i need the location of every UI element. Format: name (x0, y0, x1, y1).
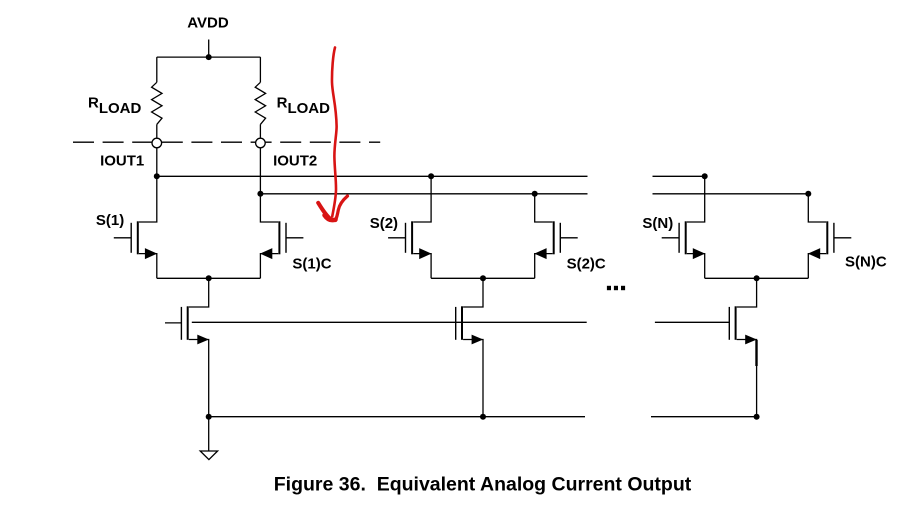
wire ground rail left segment (209, 416, 585, 418)
ground symbol (200, 451, 217, 460)
wire ground stub (208, 417, 210, 451)
label RLOAD right (277, 95, 331, 117)
annotation red arrowhead left wing (318, 203, 331, 220)
ellipsis continuation dots (607, 286, 625, 290)
label S(1)C (292, 255, 331, 272)
node label IOUT2 (273, 152, 317, 169)
junction AVDD node (206, 54, 212, 60)
junction tail node pair N (754, 275, 760, 281)
terminal circle IOUT2 (256, 138, 266, 148)
terminal circle IOUT1 (152, 138, 162, 148)
label S(1) (96, 212, 124, 229)
node label IOUT1 (100, 152, 144, 169)
wire tail rail pair N (705, 277, 809, 279)
junction tail node pair 1 (206, 275, 212, 281)
label RLOAD left (88, 95, 142, 117)
transistor Q2 switch S(1)C (260, 194, 303, 278)
transistor Q5 switch S(N) (662, 176, 705, 278)
dashed boundary line (73, 141, 380, 143)
wire AVDD stub (208, 40, 210, 58)
transistor Q4 switch S(2)C (534, 194, 577, 278)
wire right resistor bottom lead (259, 124, 261, 137)
wire bus IOUT2 rail right segment (653, 193, 809, 195)
wire IOUT1 drop (156, 148, 158, 177)
power net label AVDD (187, 14, 229, 31)
wire bias line left segment (192, 321, 587, 323)
junction tail node pair 2 (480, 275, 486, 281)
wire tail rail pair 1 (157, 277, 261, 279)
resistor RLOAD right (255, 82, 265, 124)
transistor Q9 current source N (729, 278, 757, 416)
wire right resistor top lead (259, 57, 261, 82)
wire bus IOUT2 rail left segment (260, 193, 587, 195)
wire tail rail pair 2 (431, 277, 535, 279)
wire left resistor top lead (156, 57, 158, 82)
wire top rail (157, 56, 261, 58)
transistor Q6 switch S(N)C (808, 194, 851, 278)
annotation red arrowhead right hook (336, 196, 348, 221)
transistor Q1 switch S(1) (114, 176, 157, 278)
label S(N) (642, 215, 673, 232)
wire ground rail right segment (651, 416, 757, 418)
label S(2) (370, 215, 398, 232)
label S(N)C (845, 254, 887, 271)
annotation red arrowhead tip blob (325, 215, 336, 220)
label S(2)C (567, 255, 606, 272)
wire IOUT2 drop (259, 148, 261, 194)
transistor Q8 current source 2 (456, 278, 484, 416)
wire left resistor bottom lead (156, 124, 158, 137)
caption Figure 36 (274, 474, 692, 496)
junction dots on rails (154, 173, 812, 197)
wire bias line right segment (655, 321, 730, 323)
resistor RLOAD left (152, 82, 162, 124)
transistor Q7 current source 1 (165, 278, 209, 416)
junction dots on ground rail (206, 414, 760, 420)
wire bus IOUT1 rail left segment (157, 175, 588, 177)
transistor Q3 switch S(2) (388, 176, 431, 278)
annotation red arrow stem (332, 48, 337, 217)
wire bus IOUT1 rail right segment (653, 175, 705, 177)
